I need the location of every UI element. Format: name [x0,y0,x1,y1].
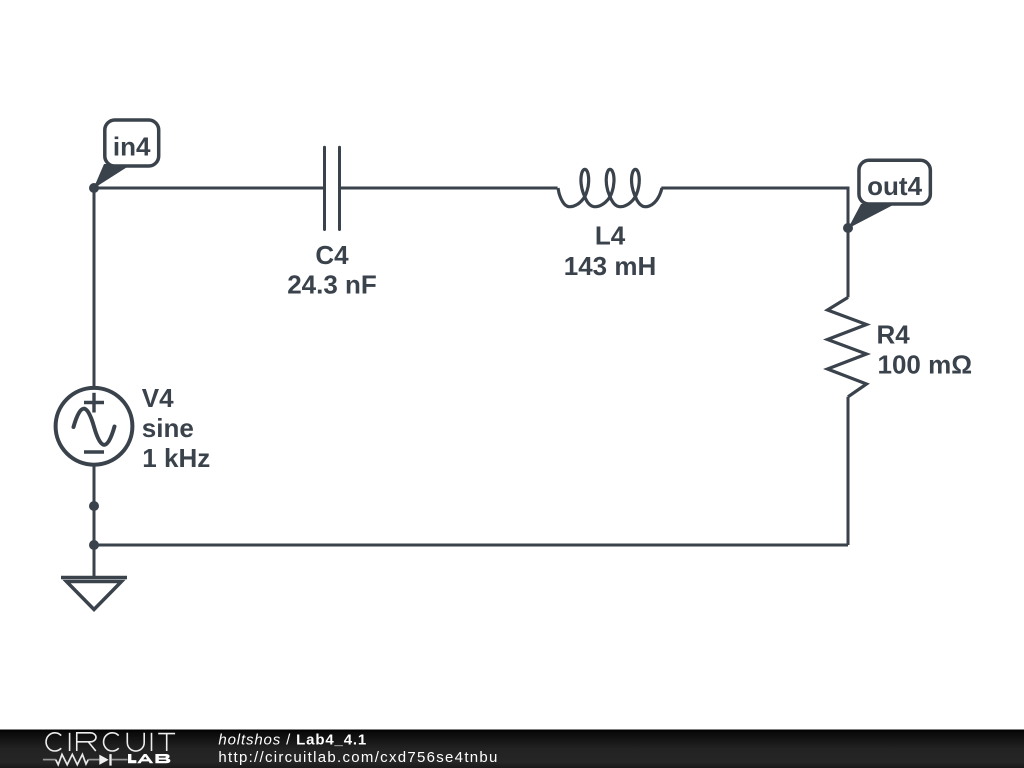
voltage source V4 plus sign [84,393,104,413]
wire: top horizontal from inductor L4 to top-right corner, down to out4 node [661,188,848,228]
svg-text:holtshos / Lab4_4.1: holtshos / Lab4_4.1 [218,731,367,748]
wire: ground stub below bottom junction [93,545,96,577]
voltage source V4 sine wave [74,409,115,445]
node in4 dot [89,183,99,193]
voltage source V4 circle [56,388,133,465]
svg-text:1 kHz: 1 kHz [142,443,210,473]
CircuitLab logo wordmark CIRCUIT (drawn letters) [46,733,175,751]
wire: right vertical from resistor R4 bottom to bottom-right corner [847,397,850,545]
svg-text:R4: R4 [877,319,911,349]
callout out4 box [859,160,930,204]
callout in4 box [105,120,159,166]
svg-text:http://circuitlab.com/cxd756se: http://circuitlab.com/cxd756se4tnbu [218,749,498,766]
svg-text:in4: in4 [113,132,151,162]
svg-text:sine: sine [142,413,194,443]
wire: right vertical from out4 node to resistor R4 top [847,228,850,297]
inductor L4 coil [558,169,662,206]
svg-text:143 mH: 143 mH [564,251,657,281]
wire: left vertical from in4 node down to voltage source V4 top terminal [93,188,96,388]
svg-text:24.3 nF: 24.3 nF [287,270,377,300]
resistor R4 zigzag [828,297,867,396]
voltage source V4 minus sign [84,450,104,453]
svg-text:V4: V4 [142,383,174,413]
wire: bottom horizontal from bottom-right corner to ground junction [94,544,848,547]
svg-text:100 mΩ: 100 mΩ [878,350,973,380]
ground symbol triangle [67,582,122,610]
wire: top horizontal from capacitor C4 right plate to inductor L4 [340,187,558,190]
svg-text:C4: C4 [315,240,349,270]
ground symbol bar [61,576,127,580]
node junction dot at bottom wire junction [89,540,99,550]
callout in4 tail [94,164,133,189]
CircuitLab logo wordmark LAB (drawn letters) [128,754,170,763]
wire: from voltage source V4 bottom terminal down through junction dots [93,465,96,545]
CircuitLab logo resistor-diode symbol [43,754,128,764]
svg-text:out4: out4 [867,171,922,201]
footer bar [0,730,1024,768]
node out4 dot [843,223,853,233]
svg-text:L4: L4 [595,221,626,251]
callout out4 tail [848,204,895,229]
capacitor C4 plates [325,147,340,229]
wire: top horizontal from in4 node to capacitor C4 left plate [94,187,325,190]
node junction dot below V4 [89,501,99,511]
